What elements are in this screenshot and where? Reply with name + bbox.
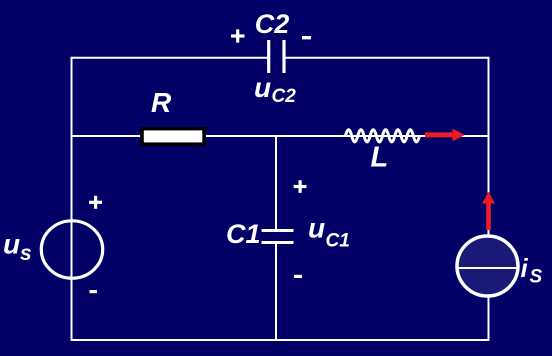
source label i_S: [521, 253, 543, 288]
current source i_S circle: [457, 236, 519, 296]
svg-text:s: s: [20, 242, 32, 265]
svg-text:u: u: [308, 213, 325, 244]
svg-text:C1: C1: [226, 219, 261, 249]
red current arrow (right): [425, 129, 465, 142]
wire middle vertical upper segment: [275, 136, 277, 229]
wire top-right segment (C2 right plate to right corner): [285, 57, 488, 59]
svg-text:i: i: [521, 253, 529, 283]
capacitor C2 plates: [269, 40, 284, 73]
voltage label u_C2: [254, 72, 296, 107]
wire right vertical: [488, 57, 490, 341]
capacitor C1 plates: [262, 231, 294, 243]
svg-text:R: R: [151, 87, 172, 118]
wire bottom: [71, 339, 490, 341]
inductor L coil: [346, 130, 420, 142]
wire middle vertical lower segment: [275, 244, 277, 340]
wire top-left segment (left corner to C2 left plate): [72, 57, 268, 59]
svg-text:u: u: [254, 72, 271, 103]
u_s minus sign: [90, 290, 98, 293]
C2 plus sign: [231, 29, 245, 42]
svg-text:S: S: [530, 267, 543, 288]
C1 plus sign: [294, 180, 307, 193]
C2 minus sign: [302, 36, 311, 39]
wire middle horizontal: [72, 135, 489, 137]
svg-text:u: u: [3, 229, 20, 260]
svg-text:C1: C1: [326, 231, 350, 252]
svg-text:L: L: [371, 142, 389, 174]
svg-text:C2: C2: [272, 86, 297, 107]
voltage label u_C1: [308, 213, 350, 252]
red current arrow (up): [482, 192, 495, 231]
svg-text:C2: C2: [255, 9, 290, 39]
source label u_s: [3, 229, 32, 266]
voltage source u_s circle: [41, 221, 102, 278]
C1 minus sign: [294, 275, 302, 278]
resistor R body: [140, 127, 206, 146]
wire left vertical: [71, 57, 73, 341]
u_s plus sign: [89, 196, 102, 209]
